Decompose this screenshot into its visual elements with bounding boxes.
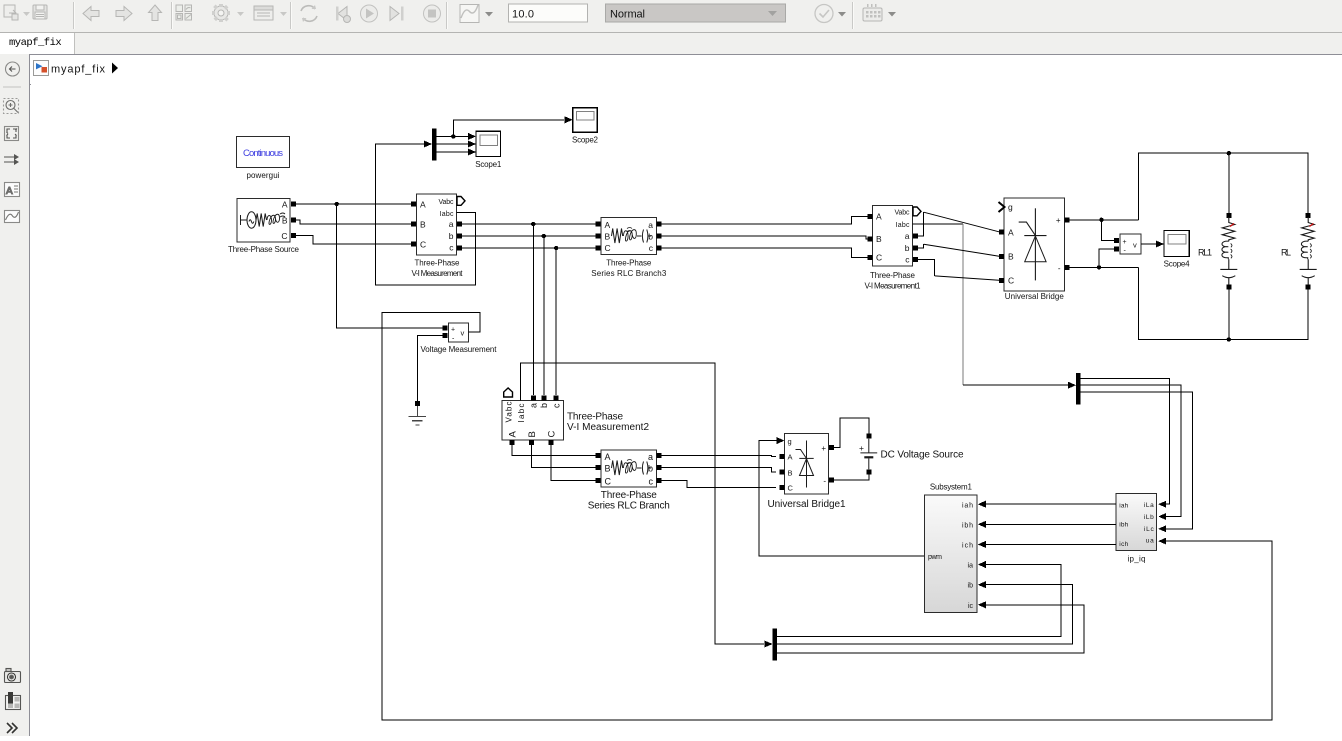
port A — [780, 454, 785, 459]
port C — [999, 278, 1004, 283]
up arrow — [149, 5, 162, 21]
wire c1 to Bridge C — [918, 260, 935, 276]
port A — [510, 440, 515, 445]
hide browser button — [6, 62, 20, 76]
svg-text:Three-Phase: Three-Phase — [601, 490, 657, 501]
demux2 out2 to iLb — [1081, 385, 1181, 516]
left sidebar — [0, 54, 30, 736]
breadcrumb bar — [30, 54, 1342, 85]
port C — [596, 246, 601, 251]
library badge — [6, 696, 21, 710]
ip_iq block — [1116, 494, 1157, 564]
node on wire A — [335, 202, 339, 206]
svg-text:ip_iq: ip_iq — [1128, 555, 1146, 564]
stop icon — [424, 5, 441, 22]
run icon — [361, 5, 378, 22]
svg-text:ich: ich — [1119, 541, 1128, 548]
svg-text:B: B — [420, 220, 426, 230]
svg-text:iLc: iLc — [1144, 526, 1155, 533]
svg-text:Iabc: Iabc — [440, 211, 455, 218]
DC bus Voltage Measurement — [1114, 234, 1141, 254]
svg-text:B: B — [876, 234, 882, 244]
port bottom — [866, 469, 871, 474]
svg-text:A: A — [605, 452, 611, 462]
svg-text:-: - — [1058, 264, 1061, 273]
wire DC voltmeter - to node- — [1099, 249, 1114, 267]
svg-text:+: + — [1056, 216, 1061, 225]
node to Scope2 — [451, 134, 455, 138]
tab bar — [0, 33, 1342, 54]
wire RLC a to Bridge1 A — [662, 455, 777, 458]
port c — [657, 246, 662, 251]
svg-text:powergui: powergui — [247, 171, 280, 180]
svg-text:ich: ich — [962, 542, 973, 549]
svg-text:a: a — [648, 220, 653, 230]
svg-text:Voltage Measurement: Voltage Measurement — [421, 345, 498, 354]
svg-text:Vabc: Vabc — [439, 199, 455, 206]
port C — [596, 478, 601, 483]
board icon — [863, 8, 882, 21]
wire ip_iq ich to Subsystem1 — [986, 543, 1116, 545]
wire Bridge1 + to DC source — [834, 418, 869, 448]
port Vabc unconnected (up) — [504, 388, 513, 397]
svg-text:ic: ic — [968, 603, 974, 610]
demux out 2 to Scope1 — [437, 143, 469, 145]
svg-text:c: c — [552, 403, 562, 408]
Scope2 — [572, 108, 599, 145]
port Vabc unconnected — [913, 207, 921, 216]
svg-text:Series RLC Branch: Series RLC Branch — [588, 501, 670, 512]
port - — [1114, 247, 1119, 252]
svg-text:a: a — [529, 403, 539, 408]
wire Iabc to Demux — [376, 144, 476, 285]
port + — [1065, 217, 1070, 222]
svg-text:Iabc: Iabc — [896, 222, 911, 229]
node - — [1097, 265, 1101, 269]
svg-text:Three-Phase: Three-Phase — [870, 271, 916, 280]
wire v to Scope4 — [1141, 243, 1156, 245]
svg-text:ia: ia — [968, 562, 974, 569]
wire A2 to RLC Branch A — [512, 445, 596, 456]
wire node A down to Voltage Measurement + — [337, 204, 443, 328]
port bottom — [1306, 285, 1311, 290]
wire source C to V-I Measurement C — [296, 236, 413, 245]
svg-text:Vabc: Vabc — [895, 210, 911, 217]
wire RLC c to Bridge1 C — [662, 480, 777, 487]
port - — [1065, 265, 1070, 270]
node a tap — [531, 222, 535, 226]
Subsystem1 — [925, 483, 978, 613]
Scope1 — [475, 131, 502, 169]
curve tool — [5, 211, 20, 223]
port A — [596, 222, 601, 227]
Scope4 — [1164, 231, 1191, 269]
svg-text:ibh: ibh — [1119, 522, 1128, 529]
svg-text:ib: ib — [968, 583, 974, 590]
svg-text:C: C — [788, 484, 794, 493]
port B — [999, 254, 1004, 259]
wire a: V-I Measurement to RLC Branch3 — [462, 223, 596, 225]
wire c — [462, 247, 596, 249]
svg-text:10.0: 10.0 — [512, 9, 534, 21]
Three-Phase V-I Measurement1 — [865, 205, 922, 290]
port B — [868, 237, 873, 242]
node c tap — [554, 246, 558, 250]
svg-text:Three-Phase: Three-Phase — [415, 259, 461, 268]
svg-text:+: + — [451, 327, 455, 334]
demux out 3 to Scope1 — [437, 151, 469, 153]
data inspector icon — [460, 5, 479, 23]
port B — [529, 440, 534, 445]
measurement marker — [1230, 224, 1234, 227]
svg-text:Series RLC Branch3: Series RLC Branch3 — [591, 269, 667, 278]
port C — [868, 255, 873, 260]
powergui block — [237, 137, 290, 181]
svg-text:C: C — [1008, 276, 1014, 286]
svg-text:Subsystem1: Subsystem1 — [930, 483, 973, 492]
svg-text:Three-Phase: Three-Phase — [606, 259, 652, 268]
arrow into Demux — [424, 141, 432, 148]
node RL1 bottom — [1227, 337, 1231, 341]
svg-text:a: a — [449, 219, 454, 229]
demux2 out1 to iLa — [1081, 379, 1170, 505]
svg-text:pwm: pwm — [928, 554, 942, 561]
port c — [913, 257, 918, 262]
wire B2 to RLC Branch B — [532, 445, 596, 468]
svg-text:a: a — [905, 231, 910, 241]
port A — [291, 202, 296, 207]
wire b — [462, 235, 596, 237]
port B — [596, 465, 601, 470]
svg-text:B: B — [605, 232, 611, 242]
port c — [657, 478, 662, 483]
port C — [291, 233, 296, 238]
port b — [657, 465, 662, 470]
node + — [1099, 218, 1103, 222]
svg-text:RL1: RL1 — [1198, 248, 1212, 258]
wire RLC3 b to B — [662, 236, 869, 239]
wire ip_iq iah to Subsystem1 — [986, 503, 1116, 505]
port C — [780, 485, 785, 490]
svg-text:B: B — [788, 468, 793, 477]
zoom tool — [4, 99, 19, 114]
svg-text:C: C — [281, 231, 287, 241]
load loop left/top/bottom/right rails — [1139, 153, 1309, 220]
model settings icon — [254, 6, 273, 20]
wire source A to V-I Measurement A — [296, 203, 413, 205]
port top — [1306, 213, 1311, 218]
port A — [411, 202, 416, 207]
node b tap — [542, 234, 546, 238]
port b — [657, 234, 662, 239]
svg-text:A: A — [605, 220, 611, 230]
DC Voltage Source — [859, 434, 964, 475]
svg-text:B: B — [605, 464, 611, 474]
Universal Bridge — [999, 198, 1070, 301]
svg-text:Iabc: Iabc — [517, 404, 526, 423]
wire RLC3 a to V-I Measurement1 A — [662, 217, 869, 225]
wire Bridge1 - to DC source — [834, 474, 869, 480]
port top — [1226, 213, 1231, 218]
demux2 out3 to iLc — [1081, 392, 1193, 529]
Three-Phase V-I Measurement2 (rotated) — [502, 388, 649, 445]
port - — [442, 333, 447, 338]
svg-text:iah: iah — [962, 502, 973, 509]
svg-text:A: A — [1008, 227, 1014, 237]
new model icon — [4, 5, 15, 17]
Universal Bridge1 — [768, 434, 846, 510]
port C — [549, 440, 554, 445]
demux3 out3 to ic — [777, 605, 1084, 653]
svg-text:+: + — [1123, 239, 1127, 246]
svg-text:Scope4: Scope4 — [1164, 260, 1191, 269]
svg-text:A: A — [508, 431, 519, 438]
port g unconnected — [999, 202, 1005, 212]
port Vabc unconnected — [457, 197, 465, 206]
svg-text:iah: iah — [1119, 502, 1128, 509]
signal lines tool — [4, 157, 18, 162]
svg-text:Scope2: Scope2 — [572, 136, 599, 145]
wire b1 to Bridge B — [918, 244, 924, 248]
Three-Phase V-I Measurement block — [411, 194, 465, 278]
svg-text:Universal Bridge: Universal Bridge — [1005, 292, 1065, 301]
Demux (Scope1) — [432, 129, 437, 161]
wire RLC3 c to C — [662, 248, 869, 258]
svg-text:v: v — [461, 329, 465, 338]
check icon — [815, 5, 833, 23]
svg-text:+: + — [821, 444, 826, 453]
svg-text:v: v — [1133, 241, 1137, 250]
toolbar — [0, 0, 1342, 33]
wire tap c down — [555, 248, 557, 395]
RL1 load branch — [1198, 153, 1237, 339]
port B — [291, 218, 296, 223]
svg-text:Universal Bridge1: Universal Bridge1 — [768, 499, 846, 510]
wire Iabc1 to Demux2 — [913, 223, 963, 225]
svg-text:ibh: ibh — [962, 522, 973, 529]
svg-text:Normal: Normal — [610, 9, 645, 21]
fit to view — [5, 127, 19, 141]
wire node to Scope2 — [453, 120, 564, 137]
port - — [829, 478, 834, 483]
port A — [596, 453, 601, 458]
svg-text:RL: RL — [1281, 248, 1291, 258]
wire v output long loop to ip_iq ua — [382, 312, 1272, 720]
svg-text:C: C — [547, 431, 558, 438]
wire source B to V-I Measurement B — [296, 220, 413, 224]
port C — [411, 242, 416, 247]
svg-text:b: b — [449, 231, 454, 241]
wire - to ground — [417, 336, 442, 401]
svg-text:B: B — [527, 431, 538, 437]
svg-text:C: C — [876, 253, 882, 263]
port b — [913, 246, 918, 251]
wire Iabc2 up and right to Demux3 — [521, 363, 764, 644]
svg-text:V-I Measurement1: V-I Measurement1 — [865, 282, 922, 291]
svg-text:V-I Measurement2: V-I Measurement2 — [567, 422, 649, 433]
wire Bridge + to load loop — [1070, 219, 1139, 221]
svg-text:DC Voltage Source: DC Voltage Source — [881, 450, 964, 461]
svg-text:C: C — [420, 240, 426, 250]
forward arrow — [116, 7, 132, 21]
demux3 out2 to ib — [777, 585, 1073, 644]
simulink model icon — [34, 61, 49, 76]
port b — [457, 234, 462, 239]
back arrow — [83, 7, 99, 21]
svg-text:g: g — [1008, 202, 1013, 212]
svg-text:Three-Phase Source: Three-Phase Source — [228, 245, 300, 254]
port c — [457, 246, 462, 251]
svg-text:A: A — [876, 212, 882, 222]
svg-text:A: A — [6, 186, 13, 197]
wire C2 to RLC Branch C — [551, 445, 596, 480]
svg-text:ua: ua — [1146, 537, 1154, 544]
svg-text:Scope1: Scope1 — [475, 160, 502, 169]
port bottom — [1226, 285, 1231, 290]
port + — [1114, 238, 1119, 243]
Voltage Measurement block — [421, 323, 498, 354]
step back icon — [338, 7, 347, 21]
wire ip_iq ibh to Subsystem1 — [986, 523, 1116, 525]
annotation tool — [5, 183, 20, 197]
svg-text:b: b — [905, 243, 910, 253]
port top — [866, 434, 871, 439]
port b — [541, 395, 546, 400]
port B — [596, 234, 601, 239]
wire node+ down to DC voltmeter — [1101, 220, 1114, 241]
port a — [913, 234, 918, 239]
wire tap b down — [543, 236, 545, 395]
measurement marker — [1309, 224, 1313, 227]
port c — [554, 395, 559, 400]
port + — [829, 445, 834, 450]
Demux2 (iL) — [1076, 373, 1081, 405]
svg-text:Vabc: Vabc — [505, 402, 514, 423]
ground — [409, 401, 427, 425]
svg-text:B: B — [1008, 252, 1014, 262]
svg-text:A: A — [788, 453, 793, 462]
port A — [868, 214, 873, 219]
svg-text:C: C — [605, 243, 611, 253]
svg-text:b: b — [648, 464, 653, 474]
port B — [411, 222, 416, 227]
update diagram icon — [301, 6, 315, 11]
wire tap a down to V-I Measurement2 — [532, 224, 534, 395]
wire pwm to Bridge1 g — [759, 441, 925, 556]
demux out 1 to Scope1 — [437, 135, 469, 137]
node RL1 top — [1227, 151, 1231, 155]
mode dropdown — [606, 4, 786, 22]
port B — [780, 470, 785, 475]
Three-Phase Source block — [228, 199, 300, 255]
sim stop time field — [509, 4, 588, 22]
svg-text:-: - — [823, 477, 826, 486]
wire Bridge - to load loop — [1070, 266, 1139, 268]
Demux3 (ia ib ic) — [773, 629, 778, 661]
svg-text:iLa: iLa — [1144, 502, 1154, 509]
svg-text:A: A — [420, 200, 426, 210]
camera — [5, 672, 21, 683]
svg-text:c: c — [649, 477, 654, 487]
svg-text:iLb: iLb — [1144, 514, 1154, 521]
gear icon — [214, 6, 228, 20]
Three-Phase Series RLC Branch — [588, 450, 670, 512]
step forward icon — [390, 7, 399, 21]
svg-text:myapf_fix: myapf_fix — [51, 64, 106, 76]
save icon — [33, 5, 47, 19]
svg-text:b: b — [539, 403, 549, 408]
port A — [999, 230, 1004, 235]
port a — [657, 222, 662, 227]
svg-text:a: a — [648, 452, 653, 462]
port a — [657, 453, 662, 458]
demux3 out1 to ia — [777, 565, 1061, 637]
wire a1 to Bridge A — [918, 212, 924, 236]
expand chevrons — [7, 723, 17, 733]
svg-text:A: A — [282, 200, 288, 210]
Three-Phase Series RLC Branch3 — [591, 218, 667, 278]
RL load branch — [1281, 213, 1317, 290]
svg-text:C: C — [605, 477, 612, 487]
wire RLC b to Bridge1 B — [662, 468, 777, 472]
svg-text:Three-Phase: Three-Phase — [567, 412, 623, 423]
port a — [457, 222, 462, 227]
svg-text:V-I Measurement: V-I Measurement — [412, 269, 464, 278]
svg-text:g: g — [788, 437, 792, 446]
svg-text:Continuous: Continuous — [243, 148, 283, 159]
library browser icon — [176, 5, 183, 12]
port a — [531, 395, 536, 400]
svg-text:+: + — [859, 443, 864, 453]
port + — [442, 326, 447, 331]
